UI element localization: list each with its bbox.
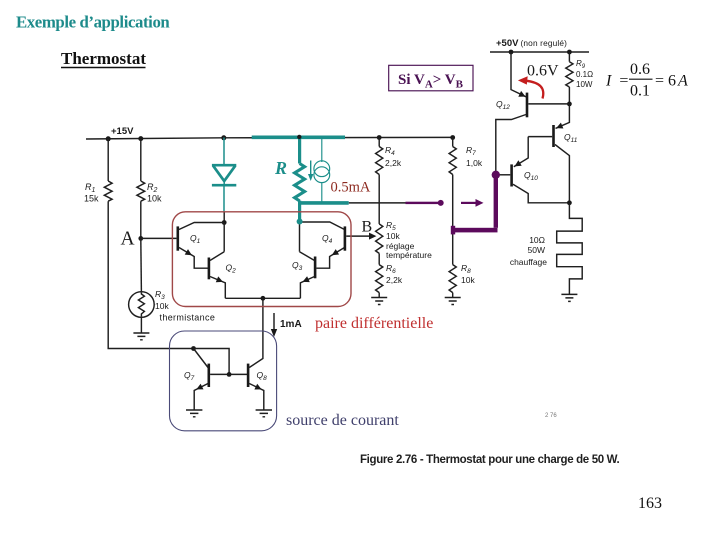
R7 value label (466, 145, 483, 168)
wire Q12 emitter from rail (511, 52, 526, 97)
wire R9 to node (568, 87, 570, 104)
svg-text:0.1Ω: 0.1Ω (576, 70, 593, 79)
wire teal R top (298, 137, 301, 163)
wire R7 to R8 (452, 175, 454, 265)
R4 value label (385, 145, 402, 168)
svg-text:R2: R2 (147, 182, 158, 194)
svg-text:+50V: +50V (496, 38, 519, 49)
wire R7 branch (452, 138, 454, 147)
ground (R8) (445, 298, 461, 305)
wire Q3 collector line (299, 222, 301, 252)
svg-text:Exemple d’application: Exemple d’application (16, 13, 170, 32)
purple annotations (406, 171, 500, 235)
resistor R8 (449, 265, 456, 293)
wire R2 branch (140, 139, 142, 181)
svg-text:Thermostat: Thermostat (61, 49, 146, 68)
svg-text:R9: R9 (576, 59, 586, 70)
svg-text:chauffage: chauffage (510, 257, 547, 267)
current source box (slate blue) (170, 331, 400, 431)
resistor R1 (104, 181, 112, 201)
svg-text:R6: R6 (386, 263, 396, 275)
wire R2 to node A (140, 201, 142, 238)
wire R6 to ground (378, 293, 380, 298)
wire teal rail highlight (252, 136, 345, 140)
R6 value label (386, 263, 403, 285)
resistor R2 (137, 181, 145, 201)
wire Q10 emitter to Q11 base (514, 137, 528, 167)
svg-text:température: température (386, 250, 432, 260)
svg-text:R7: R7 (466, 145, 476, 157)
node Q1/Q2 collectors (222, 220, 227, 225)
svg-text:= 6A: = 6A (655, 73, 688, 90)
ground (R6) (371, 298, 387, 305)
svg-text:2,2k: 2,2k (386, 275, 403, 285)
svg-text:R: R (274, 158, 287, 178)
wire R4 branch (378, 138, 380, 147)
svg-text:0.1: 0.1 (630, 83, 650, 100)
svg-text:Q4: Q4 (322, 233, 333, 245)
svg-text:163: 163 (638, 495, 662, 512)
svg-text:10k: 10k (155, 301, 169, 311)
wire Q1-Q2 collector line (223, 223, 225, 252)
node mirror program (191, 346, 196, 351)
svg-text:(non regulé): (non regulé) (521, 38, 568, 48)
node on rail at R1 (106, 136, 111, 141)
svg-text:B: B (362, 219, 373, 236)
wire R9 branch (568, 52, 570, 62)
svg-text:Q11: Q11 (564, 132, 578, 144)
resistor R7 (449, 147, 456, 175)
transistor Q3 (300, 252, 317, 299)
wire Q11 emitter (556, 104, 570, 128)
svg-text:R3: R3 (155, 289, 165, 301)
svg-text:0.5mA: 0.5mA (331, 180, 371, 196)
R1 value label (84, 182, 99, 204)
svg-text:+15V: +15V (111, 126, 134, 137)
wire purple highlight to node (406, 202, 439, 204)
svg-text:10k: 10k (386, 231, 400, 241)
wire teal bottom bar (298, 201, 349, 205)
+50V label (496, 38, 567, 49)
node on rail at R2 (138, 136, 143, 141)
R3 value label (155, 289, 215, 323)
svg-text:10k: 10k (147, 194, 162, 204)
svg-text:Q12: Q12 (496, 99, 510, 111)
node black on teal rail (297, 135, 301, 139)
wire purple vertical (Q12 collector to Q10 base) (494, 175, 498, 228)
formula I = 0.6/0.1 = 6A (605, 61, 688, 100)
svg-text:paire différentielle: paire différentielle (315, 315, 433, 332)
svg-text:10k: 10k (461, 275, 475, 285)
svg-text:Figure 2.76 - Thermostat pour: Figure 2.76 - Thermostat pour une charge… (360, 454, 620, 466)
wire node A down to thermistance (140, 238, 143, 292)
potentiometer R5 (376, 224, 383, 253)
wire R5 to R6 (378, 253, 380, 264)
wire R1 branch (107, 139, 109, 181)
transistor Q12 (496, 91, 570, 176)
wire diode branch top (223, 138, 225, 166)
svg-text:source de courant: source de courant (286, 412, 399, 429)
R2 value label (147, 182, 162, 204)
transistor Q11 (528, 123, 569, 203)
wire Q7-Q8 bases (210, 373, 247, 375)
wire teal R bottom (298, 201, 301, 222)
svg-text:2 76: 2 76 (545, 413, 557, 419)
node rail at Q12 (509, 50, 514, 55)
node teal (Q3/Q4 collectors) (297, 219, 303, 225)
purple arrow (461, 199, 484, 207)
svg-text:Q10: Q10 (524, 170, 538, 182)
ground (Q8) (256, 410, 272, 417)
+50V supply rail (490, 51, 589, 53)
wire emitters bottom (225, 297, 300, 299)
transistor Q8 (247, 357, 264, 411)
node Q12 base / R9 bottom (567, 102, 572, 107)
ground (thermistance) (133, 333, 149, 340)
wire node A to Q1 base (141, 237, 177, 239)
node on rail at R4 (377, 135, 382, 140)
thermistance R3 (129, 292, 155, 318)
resistor R (teal) (295, 164, 305, 201)
wire mirror top to bases (194, 349, 230, 375)
svg-text:10W: 10W (576, 80, 593, 89)
svg-text:1,0k: 1,0k (466, 158, 483, 168)
R5 value label (386, 220, 432, 260)
red arrow annotation (0.6V) (518, 76, 543, 98)
svg-text:10Ω: 10Ω (529, 235, 545, 245)
svg-text:R1: R1 (85, 182, 96, 194)
wire diode cathode to diff pair (223, 186, 225, 223)
teal annotation overlay (212, 135, 371, 225)
transistor Q10 (496, 160, 569, 203)
R8 value label (461, 263, 475, 285)
diode D (teal) (212, 165, 236, 185)
svg-text:Si VA> VB: Si VA> VB (398, 72, 464, 91)
transistor Q1 (177, 223, 225, 269)
svg-text:R4: R4 (385, 145, 395, 157)
purple end cap (451, 226, 455, 235)
heater element 10 ohm 50W (557, 203, 583, 295)
node heater top (567, 200, 572, 205)
node on rail at diode (221, 135, 226, 140)
resistor R6 (376, 265, 383, 293)
svg-text:50W: 50W (528, 245, 545, 255)
svg-text:I =: I = (605, 73, 628, 90)
node A (138, 236, 143, 241)
svg-text:Q2: Q2 (226, 263, 237, 275)
current source arrow (teal) (308, 161, 313, 182)
resistor R9 (566, 62, 573, 87)
wire diff output node (349, 202, 406, 204)
svg-text:Q3: Q3 (292, 260, 303, 272)
purple node blob at Q10 base (492, 171, 500, 179)
wire Q4 base to potentiometer wiper with arrow (346, 233, 376, 240)
resistor R4 (376, 147, 383, 175)
wire Q3 base to Q4 emitter (316, 248, 344, 269)
svg-text:2,2k: 2,2k (385, 158, 402, 168)
transistor Q7 (194, 349, 211, 411)
ground (Q7) (186, 410, 202, 417)
node mirror bases (227, 372, 232, 377)
svg-text:Q1: Q1 (190, 233, 201, 245)
differential pair box (dark red) (172, 212, 433, 332)
svg-text:Q8: Q8 (257, 370, 268, 382)
svg-text:R8: R8 (461, 263, 471, 275)
R9 value label (576, 59, 593, 89)
SLIDE TEXT (16, 13, 170, 69)
node (purple dot) (438, 200, 444, 206)
svg-text:0.6: 0.6 (630, 61, 650, 78)
wire common emitters down to current source (262, 298, 264, 356)
svg-text:0.6V: 0.6V (527, 63, 559, 80)
svg-text:Q7: Q7 (184, 370, 195, 382)
node on rail at R7 (450, 135, 455, 140)
+15V supply rail wire (86, 137, 453, 139)
transistor Q2 (208, 252, 226, 299)
annotation arrow 1mA (271, 313, 277, 337)
svg-text:A: A (121, 229, 135, 250)
svg-text:1mA: 1mA (280, 319, 302, 330)
wire R8 to ground (452, 293, 454, 298)
ground (heater) (561, 294, 577, 301)
wire purple horizontal to R7/R8 junction (452, 228, 498, 233)
annotation box: Si VA > VB (389, 65, 473, 91)
wire R4 to R5 (378, 175, 380, 224)
wire thermistance to ground (140, 317, 142, 333)
wire R1 bottom down to current-source box (108, 201, 193, 348)
svg-text:thermistance: thermistance (160, 313, 216, 323)
node common emitters (261, 296, 266, 301)
heater value label (510, 235, 547, 267)
transistor Q4 (300, 222, 347, 255)
svg-text:15k: 15k (84, 194, 99, 204)
node rail at R9 (567, 50, 572, 55)
current source 0.5mA (teal circles) (314, 137, 330, 203)
